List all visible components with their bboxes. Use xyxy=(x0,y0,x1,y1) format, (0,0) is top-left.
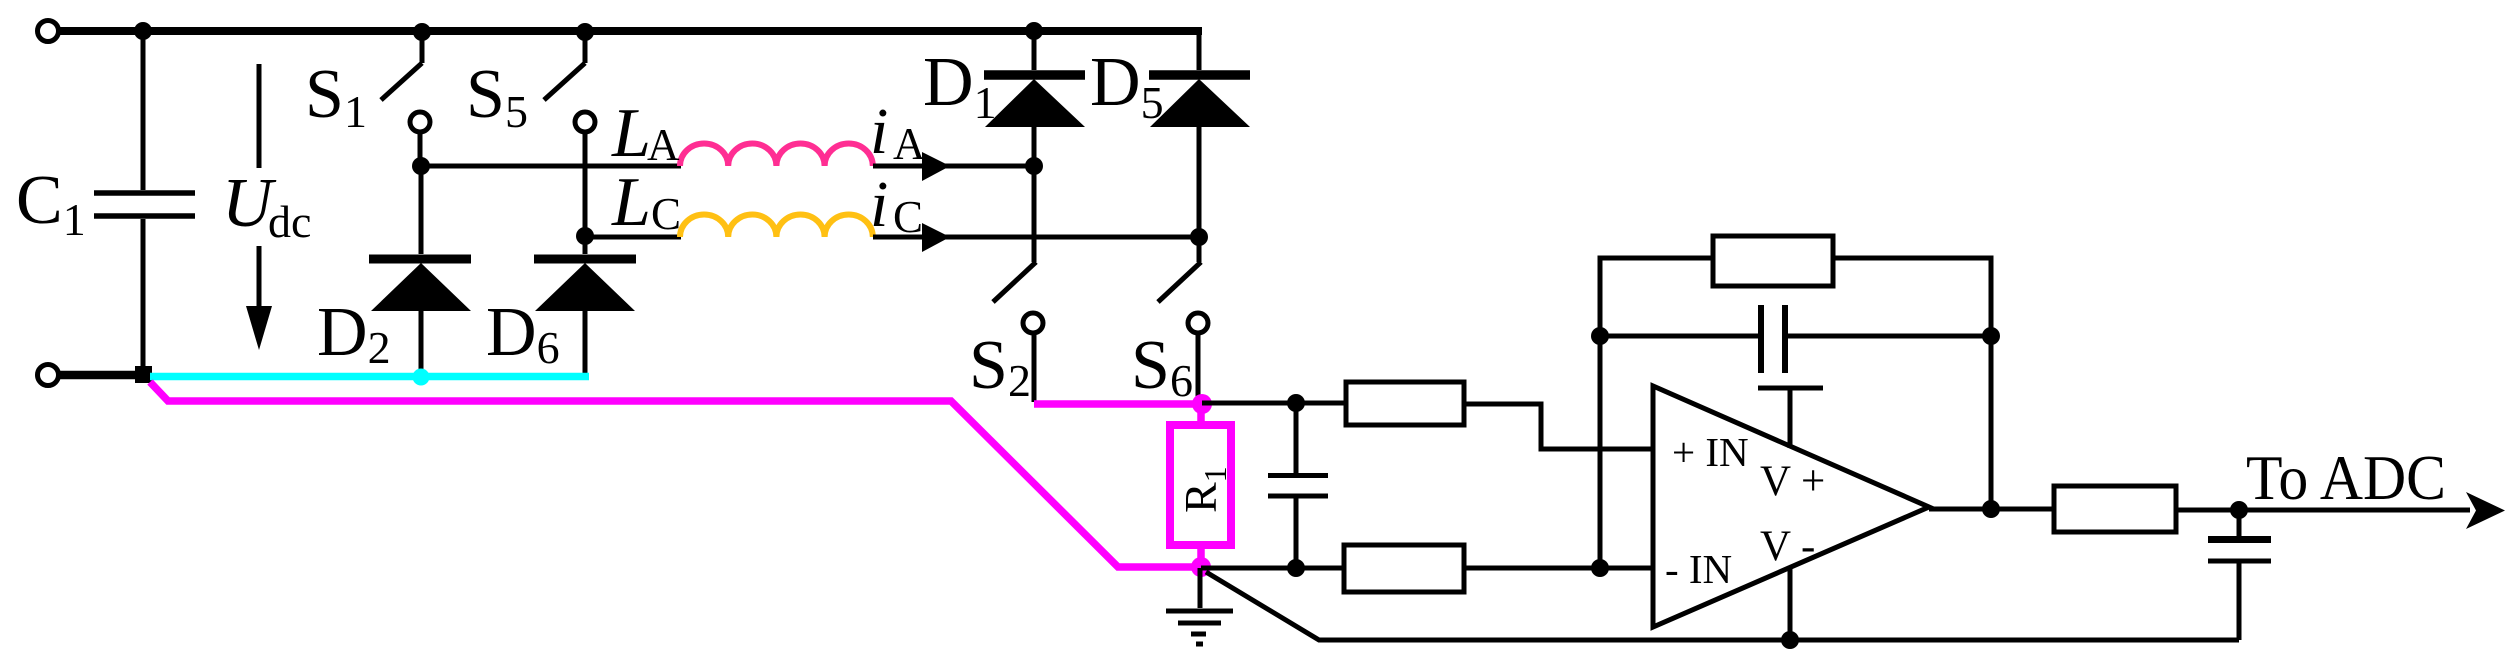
diode D5 xyxy=(1149,31,1250,262)
arrow Udc xyxy=(246,64,272,350)
resistor output xyxy=(2054,486,2176,532)
svg-text:C: C xyxy=(893,192,923,242)
svg-text:C1: C1 xyxy=(16,162,86,245)
node output cap xyxy=(2230,501,2248,519)
label S1 xyxy=(305,56,367,137)
svg-text:To ADC: To ADC xyxy=(2246,443,2446,513)
node iC junction xyxy=(1190,228,1208,246)
wire bottom-left xyxy=(57,371,152,380)
switch S1 xyxy=(381,23,431,166)
svg-text:A: A xyxy=(647,120,680,170)
resistor R1 xyxy=(1170,404,1231,567)
svg-text:D5: D5 xyxy=(1090,44,1164,128)
switch S6 xyxy=(1158,262,1208,402)
capacitor output xyxy=(2208,510,2271,640)
label To ADC xyxy=(2246,443,2446,513)
wire output xyxy=(1929,507,2054,512)
label R1 xyxy=(1175,466,1233,513)
node A phase xyxy=(412,157,430,175)
wire to ADC with arrow xyxy=(2176,492,2505,529)
terminal bottom-left xyxy=(38,365,59,386)
wire bottom return xyxy=(1206,572,2239,640)
ground xyxy=(1166,568,1233,644)
wire cyan negative rail xyxy=(150,373,589,381)
wire magenta sense path xyxy=(150,382,1203,567)
svg-text:- IN: - IN xyxy=(1665,546,1732,592)
node R1 top magenta xyxy=(1192,394,1212,414)
node output xyxy=(1982,500,2000,518)
wire LC right with current arrow iC xyxy=(873,223,1199,252)
label Udc xyxy=(222,165,311,247)
svg-text:V +: V + xyxy=(1760,458,1825,505)
wire LC left xyxy=(585,235,681,240)
svg-text:i: i xyxy=(870,168,888,241)
node filter cap bottom xyxy=(1287,559,1305,577)
node V- on return xyxy=(1781,631,1799,649)
label D5 xyxy=(1090,44,1164,128)
wire feedback vertical xyxy=(1598,336,1603,568)
node feedback left xyxy=(1591,327,1609,345)
svg-text:D1: D1 xyxy=(923,44,997,128)
node C phase xyxy=(576,227,594,245)
node feedback right xyxy=(1982,327,2000,345)
svg-text:S2: S2 xyxy=(969,327,1031,406)
label iA xyxy=(870,95,926,169)
wire to -IN xyxy=(1464,566,1653,571)
svg-text:i: i xyxy=(870,95,888,168)
resistor feedback xyxy=(1600,236,1991,336)
capacitor C1 xyxy=(94,193,195,216)
diode D1 xyxy=(984,31,1085,262)
wire LA left xyxy=(421,164,681,169)
label S2 xyxy=(969,327,1031,406)
pin V+ xyxy=(1758,388,1823,448)
node feedback tap xyxy=(1591,559,1609,577)
wire LA right with current arrow iA xyxy=(873,152,1034,181)
node filter cap top xyxy=(1287,394,1305,412)
label D2 xyxy=(317,294,391,373)
wire node to filter top xyxy=(1202,401,1346,406)
wire C1 vertical bottom xyxy=(141,219,146,375)
svg-text:L: L xyxy=(611,164,651,241)
pin V- xyxy=(1788,567,1793,640)
svg-text:V -: V - xyxy=(1760,523,1815,570)
resistor input top xyxy=(1346,382,1464,425)
op-amp U1 xyxy=(1653,386,1929,627)
wire C1 vertical top xyxy=(141,31,146,190)
diode D2 xyxy=(369,166,471,377)
svg-text:+ IN: + IN xyxy=(1672,429,1749,475)
label S5 xyxy=(466,56,528,137)
label iC xyxy=(870,168,923,242)
label D1 xyxy=(923,44,997,128)
switch S2 xyxy=(993,262,1043,402)
label D6 xyxy=(486,294,560,373)
node iA junction xyxy=(1025,157,1043,175)
node D1 top xyxy=(1025,22,1043,40)
wire node to filter bottom xyxy=(1201,566,1344,571)
label LA xyxy=(611,95,680,172)
capacitor feedback xyxy=(1600,305,1991,373)
svg-text:A: A xyxy=(893,119,926,169)
label LC xyxy=(611,164,681,241)
label C1 xyxy=(16,162,86,245)
capacitor filter xyxy=(1268,403,1328,568)
wire top bus xyxy=(57,27,1202,35)
resistor input bottom xyxy=(1344,545,1464,592)
svg-text:dc: dc xyxy=(268,196,311,247)
svg-text:S5: S5 xyxy=(466,56,528,137)
switch S5 xyxy=(544,23,595,236)
node cyan junction xyxy=(413,369,430,386)
node bottom of C1 xyxy=(135,366,152,383)
node top of C1 xyxy=(134,22,152,40)
label S6 xyxy=(1131,327,1193,406)
diode D6 xyxy=(534,236,636,377)
svg-text:S6: S6 xyxy=(1131,327,1193,406)
wire magenta S2 to R1 top xyxy=(1034,400,1202,408)
svg-text:C: C xyxy=(651,189,681,239)
node R1 bottom magenta xyxy=(1191,557,1211,577)
inductor LC xyxy=(680,215,873,238)
svg-text:L: L xyxy=(611,95,651,172)
wire feedback right vertical xyxy=(1989,336,1994,509)
inductor LA xyxy=(680,144,873,167)
svg-text:S1: S1 xyxy=(305,56,367,137)
terminal top-left xyxy=(38,21,59,42)
wire to +IN xyxy=(1465,404,1655,449)
